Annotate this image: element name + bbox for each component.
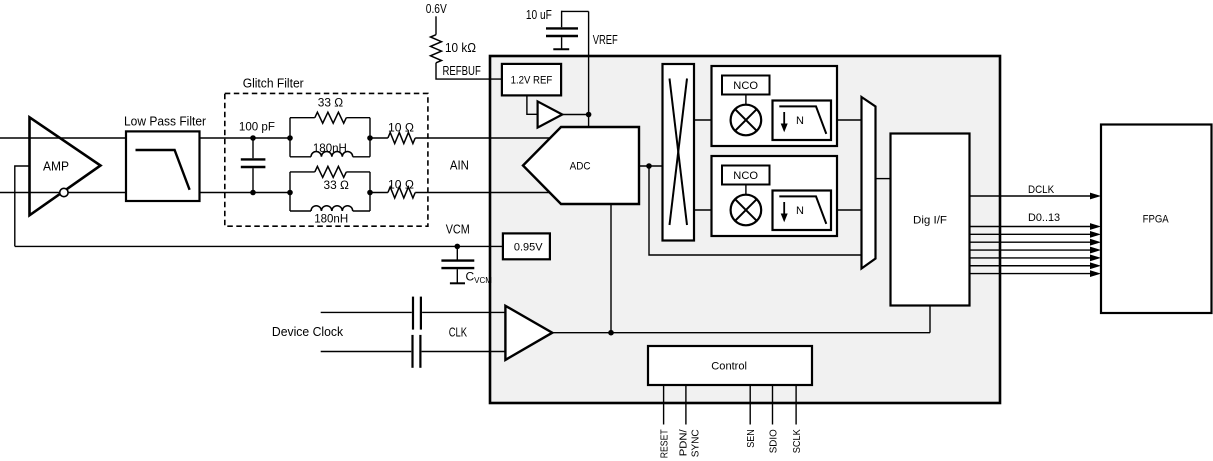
- buffer amp for VREF: [538, 101, 563, 127]
- ground for CVCM: [450, 282, 465, 284]
- mixer M1 (circle with X): [731, 105, 762, 136]
- svg-text:180nH: 180nH: [313, 141, 347, 155]
- resistor 33 ohm (top): [315, 95, 347, 123]
- ADC chip block outline: [490, 56, 1000, 403]
- pin SDIO: [768, 385, 780, 453]
- wire AIN+ RL node to 10ohm: [370, 137, 388, 139]
- wire VCM net: [15, 245, 503, 247]
- wire mixer M2 to decimation filter: [761, 209, 773, 211]
- svg-text:10 kΩ: 10 kΩ: [445, 40, 476, 55]
- svg-text:ADC: ADC: [570, 160, 591, 172]
- junction dot ADC output: [646, 163, 652, 169]
- wire ADC output to crossbar: [639, 165, 663, 167]
- svg-text:CLK: CLK: [449, 324, 468, 339]
- svg-text:REFBUF: REFBUF: [443, 63, 481, 78]
- junction dot RL top-right: [367, 135, 373, 141]
- svg-text:DCLK: DCLK: [1028, 184, 1055, 196]
- svg-text:180nH: 180nH: [314, 212, 348, 226]
- resistor 10 kohm: [431, 35, 477, 63]
- svg-text:Low Pass Filter: Low Pass Filter: [124, 114, 207, 129]
- wire AIN- amp input/output line: [0, 192, 126, 194]
- svg-text:1.2V REF: 1.2V REF: [511, 75, 553, 87]
- low pass filter block: [124, 114, 207, 201]
- 0.95V reference block: [503, 233, 550, 259]
- DDC block 2 outline: [712, 156, 838, 236]
- svg-text:SYNC: SYNC: [689, 429, 701, 457]
- svg-text:0.95V: 0.95V: [514, 242, 543, 254]
- junction dot 100pF top: [250, 135, 256, 141]
- wire AIN- RL node to 10ohm: [370, 192, 388, 194]
- wire buffer output to VREF node: [562, 114, 588, 116]
- wire device clock bottom: [321, 351, 412, 353]
- bus D0..13 to FPGA: [970, 212, 1102, 277]
- svg-text:SEN: SEN: [745, 429, 757, 448]
- junction dot clock: [608, 330, 614, 336]
- ground for 10uF: [553, 48, 569, 50]
- op-amp AMP: [30, 117, 101, 215]
- pin RESET: [659, 385, 671, 458]
- Control block: [648, 346, 812, 385]
- wire REFBUF net: [436, 63, 502, 79]
- wire DDC2 output to mux: [831, 209, 862, 211]
- junction dot VCM: [455, 244, 461, 250]
- pin SEN: [745, 385, 757, 448]
- wire clock top cap to buffer: [422, 311, 505, 313]
- wire AIN- LPF to RL node: [200, 192, 291, 194]
- inductor 180nH (top): [311, 141, 353, 157]
- svg-text:Glitch Filter: Glitch Filter: [243, 75, 305, 90]
- svg-text:CVCM: CVCM: [466, 270, 493, 286]
- wire crossbar to mixer M1: [694, 119, 731, 121]
- clock buffer: [505, 306, 552, 360]
- wire AIN+ amp input/output line: [0, 137, 126, 139]
- wire mixer M1 to decimation filter: [761, 119, 773, 121]
- svg-text:10 Ω: 10 Ω: [388, 120, 414, 134]
- svg-text:33 Ω: 33 Ω: [324, 178, 349, 192]
- glitch filter dashed boundary: [225, 75, 428, 226]
- DDC block 1 outline: [712, 66, 838, 146]
- svg-text:AIN: AIN: [450, 157, 469, 172]
- svg-text:D0..13: D0..13: [1028, 212, 1060, 224]
- svg-text:Dig I/F: Dig I/F: [913, 215, 947, 227]
- Dig I/F block: [891, 134, 970, 306]
- svg-text:SCLK: SCLK: [791, 429, 803, 453]
- wire DCLK to FPGA: [970, 184, 1102, 199]
- svg-text:VCM: VCM: [446, 221, 470, 236]
- wire AIN+ 10ohm to ADC: [415, 137, 552, 139]
- svg-text:NCO: NCO: [733, 170, 758, 182]
- resistor 10 ohm (bottom): [388, 178, 415, 198]
- junction dot VREF node: [586, 112, 592, 118]
- wire AIN- 10ohm to ADC: [415, 192, 552, 194]
- svg-text:PDN/: PDN/: [678, 429, 690, 456]
- resistor 10 ohm (top): [388, 120, 415, 143]
- pin PDN/SYNC: [678, 385, 702, 457]
- svg-text:N: N: [796, 205, 804, 217]
- clock coupling capacitor (bottom): [413, 335, 421, 368]
- wire AIN+ LPF to RL node: [200, 137, 291, 139]
- wire NCO2 to mixer: [745, 185, 747, 195]
- inductor 180nH (bottom): [311, 206, 353, 226]
- 1.2V REF block: [502, 64, 561, 96]
- svg-text:Device Clock: Device Clock: [272, 324, 344, 339]
- decimation filter 2 (divide by N): [773, 191, 832, 231]
- svg-text:10 Ω: 10 Ω: [388, 178, 414, 192]
- wire VREF net: [588, 11, 590, 128]
- svg-text:AMP: AMP: [43, 159, 69, 174]
- svg-text:Control: Control: [711, 361, 747, 373]
- wire DDC1 output to mux: [831, 119, 862, 121]
- wire VCM feedback to amp: [15, 166, 30, 246]
- svg-text:FPGA: FPGA: [1143, 214, 1170, 226]
- wire parallel RL loop (top): [290, 118, 370, 157]
- FPGA block: [1101, 125, 1212, 314]
- wire clock bottom cap to buffer: [422, 351, 506, 353]
- svg-text:N: N: [796, 115, 804, 127]
- ADC core: [523, 127, 639, 204]
- pin SCLK: [791, 385, 803, 453]
- junction dot RL bottom-left: [287, 190, 293, 196]
- wire NCO1 to mixer: [745, 95, 747, 105]
- wire mux to Dig I/F: [876, 178, 891, 180]
- wire 0.6V to resistor: [435, 16, 437, 34]
- mixer M2 (circle with X): [731, 195, 762, 226]
- svg-text:NCO: NCO: [733, 80, 758, 92]
- capacitor 10 uF: [526, 7, 589, 49]
- NCO 2 box: [722, 166, 770, 185]
- svg-text:RESET: RESET: [659, 429, 671, 458]
- svg-text:10 uF: 10 uF: [526, 7, 552, 22]
- clock coupling capacitor (top): [413, 297, 421, 330]
- crossbar switch: [663, 64, 695, 241]
- svg-text:SDIO: SDIO: [768, 429, 780, 453]
- wire device clock top: [321, 311, 412, 313]
- output mux: [862, 97, 876, 269]
- junction dot 100pF bottom: [250, 190, 256, 196]
- wire 1.2V REF to buffer: [527, 95, 538, 114]
- svg-text:100 pF: 100 pF: [239, 119, 275, 133]
- wire parallel RL loop (bottom): [290, 172, 370, 211]
- decimation filter 1 (divide by N): [773, 101, 832, 141]
- capacitor CVCM: [441, 246, 492, 285]
- resistor 33 ohm (bottom): [315, 166, 349, 192]
- inversion bubble on amp: [60, 188, 68, 196]
- capacitor C 100 pF: [239, 119, 275, 192]
- junction dot RL top-left: [287, 135, 293, 141]
- junction dot RL bottom-right: [367, 190, 373, 196]
- wire clock distribution: [552, 204, 930, 333]
- wire crossbar to mixer M2: [694, 209, 731, 211]
- svg-text:0.6V: 0.6V: [426, 1, 447, 16]
- NCO 1 box: [722, 76, 770, 95]
- svg-text:33 Ω: 33 Ω: [318, 95, 343, 109]
- svg-text:VREF: VREF: [593, 32, 618, 47]
- wire ADC bypass path to mux: [649, 166, 862, 255]
